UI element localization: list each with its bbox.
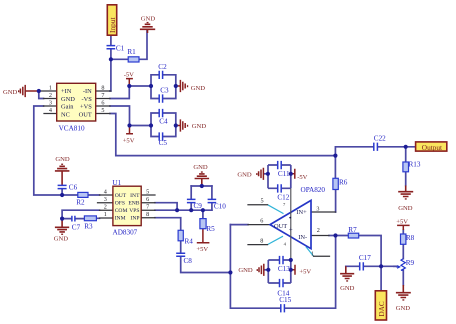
svg-text:7: 7 (146, 204, 149, 211)
svg-text:C9: C9 (194, 202, 203, 210)
svg-text:COM: COM (115, 208, 128, 214)
svg-text:7: 7 (101, 92, 104, 99)
svg-text:C3: C3 (160, 86, 169, 94)
svg-text:C15: C15 (279, 296, 291, 304)
svg-text:5: 5 (101, 107, 104, 114)
svg-text:R6: R6 (339, 179, 348, 187)
svg-text:VCA810: VCA810 (59, 124, 85, 132)
svg-text:C10: C10 (214, 202, 226, 210)
svg-text:8: 8 (146, 211, 149, 218)
svg-text:GND: GND (191, 85, 206, 92)
svg-text:C1: C1 (116, 44, 125, 52)
svg-text:2: 2 (104, 204, 107, 211)
svg-text:1: 1 (311, 250, 314, 257)
svg-text:-VS: -VS (81, 96, 92, 103)
svg-text:GND: GND (141, 16, 156, 23)
svg-text:2: 2 (317, 227, 320, 234)
svg-text:GND: GND (238, 267, 253, 274)
svg-text:4: 4 (104, 189, 107, 196)
svg-text:GND: GND (237, 172, 252, 179)
svg-text:C7: C7 (72, 224, 81, 232)
svg-text:C6: C6 (69, 184, 78, 192)
svg-text:+5V: +5V (196, 246, 208, 253)
svg-text:INP: INP (130, 216, 139, 222)
svg-text:1: 1 (49, 84, 52, 91)
svg-text:R9: R9 (406, 259, 415, 267)
svg-text:6: 6 (146, 196, 149, 203)
svg-text:-5V: -5V (297, 174, 307, 181)
svg-text:R7: R7 (348, 226, 357, 234)
svg-text:Gain: Gain (61, 104, 74, 111)
svg-text:DAC: DAC (378, 301, 386, 316)
svg-text:-5V: -5V (124, 72, 134, 79)
svg-text:GND: GND (398, 205, 413, 212)
svg-text:3: 3 (49, 99, 52, 106)
svg-text:C8: C8 (184, 257, 193, 265)
svg-text:OPA820: OPA820 (301, 186, 326, 194)
svg-text:GND: GND (55, 156, 70, 163)
svg-text:8: 8 (260, 237, 263, 244)
svg-text:1: 1 (104, 211, 107, 218)
svg-text:OUT: OUT (274, 223, 287, 230)
svg-text:C4: C4 (159, 117, 168, 125)
svg-text:C13: C13 (278, 265, 290, 273)
svg-text:GND: GND (340, 285, 355, 292)
svg-text:IN-: IN- (298, 234, 307, 241)
svg-text:+5V: +5V (299, 269, 311, 276)
svg-text:R1: R1 (127, 48, 136, 56)
svg-text:R13: R13 (409, 161, 421, 169)
svg-text:+: + (289, 226, 293, 234)
svg-text:ENB: ENB (128, 201, 139, 207)
svg-text:C5: C5 (159, 139, 168, 147)
svg-text:INM: INM (115, 216, 126, 222)
svg-text:OUT: OUT (79, 111, 92, 118)
svg-text:4: 4 (49, 107, 52, 114)
svg-text:C11: C11 (278, 170, 290, 178)
svg-text:6: 6 (260, 217, 263, 224)
svg-text:C12: C12 (277, 194, 289, 202)
svg-text:AD8307: AD8307 (113, 228, 138, 236)
svg-text:+IN: +IN (61, 88, 72, 95)
svg-text:C22: C22 (374, 135, 386, 143)
svg-text:8: 8 (101, 84, 104, 91)
svg-text:-IN: -IN (83, 88, 92, 95)
svg-text:Input: Input (108, 16, 117, 33)
svg-text:C2: C2 (158, 63, 167, 71)
svg-text:R5: R5 (206, 225, 215, 233)
svg-text:GND: GND (193, 164, 208, 171)
svg-text:IN+: IN+ (296, 209, 307, 216)
svg-text:2: 2 (49, 92, 52, 99)
svg-text:OFS: OFS (115, 201, 125, 207)
svg-text:OUT: OUT (115, 193, 127, 199)
svg-text:C17: C17 (359, 254, 371, 262)
svg-text:U1: U1 (112, 179, 121, 187)
svg-text:GND: GND (192, 123, 207, 130)
svg-text:+5V: +5V (396, 219, 408, 226)
svg-text:3: 3 (104, 196, 107, 203)
svg-text:INT: INT (130, 193, 140, 199)
svg-text:+VS: +VS (80, 104, 92, 111)
svg-text:VPS: VPS (129, 208, 139, 214)
svg-text:3: 3 (316, 206, 319, 213)
svg-text:5: 5 (146, 189, 149, 196)
svg-text:+5V: +5V (123, 138, 135, 145)
svg-text:R8: R8 (406, 234, 415, 242)
svg-text:5: 5 (261, 198, 264, 205)
svg-text:GND: GND (61, 96, 75, 103)
svg-text:6: 6 (101, 99, 104, 106)
svg-text:Output: Output (422, 143, 442, 152)
svg-text:R3: R3 (84, 222, 93, 230)
svg-text:GND: GND (396, 305, 411, 312)
svg-text:NC: NC (61, 111, 70, 118)
svg-text:GND: GND (54, 236, 69, 243)
svg-text:GND: GND (3, 89, 18, 96)
svg-text:R2: R2 (76, 198, 85, 206)
svg-text:R4: R4 (185, 237, 194, 245)
